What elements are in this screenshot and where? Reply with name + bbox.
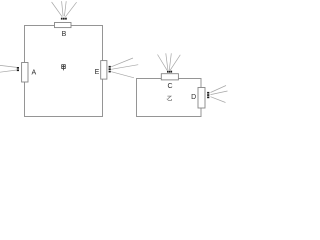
svg-text:B: B (62, 31, 67, 38)
svg-text:C: C (167, 83, 172, 90)
svg-text:D: D (191, 94, 196, 101)
svg-text:A: A (31, 70, 36, 77)
svg-text:E: E (95, 69, 100, 76)
